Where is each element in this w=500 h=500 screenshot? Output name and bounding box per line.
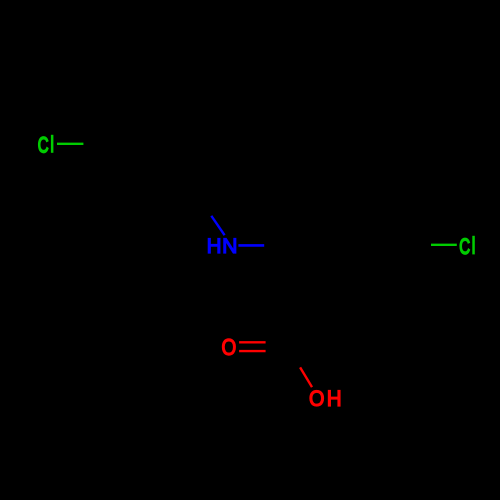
svg-text:O: O: [222, 334, 237, 360]
bond N-ring horizontal (nitrogen-colored half): [238, 244, 264, 247]
svg-text:C: C: [459, 235, 470, 260]
atom label Cl (left chlorine) - l glyph bar: [51, 135, 54, 153]
atom label Cl (right chlorine) - l glyph bar: [472, 236, 475, 255]
svg-text:O: O: [309, 387, 324, 411]
svg-text:H: H: [207, 235, 222, 258]
bond ring-N diagonal (nitrogen-colored half): [211, 216, 224, 235]
bond Cl-ring left (chlorine-colored half): [57, 143, 83, 145]
double bond C=O upper line (oxygen-colored half): [239, 341, 266, 343]
bond ring-Cl right (chlorine-colored half): [431, 244, 457, 246]
bond C-OH diagonal (oxygen-colored half): [300, 367, 312, 387]
svg-text:H: H: [327, 386, 342, 411]
double bond C=O lower line (oxygen-colored half): [239, 350, 266, 352]
svg-text:C: C: [38, 133, 49, 158]
svg-text:N: N: [222, 235, 237, 258]
